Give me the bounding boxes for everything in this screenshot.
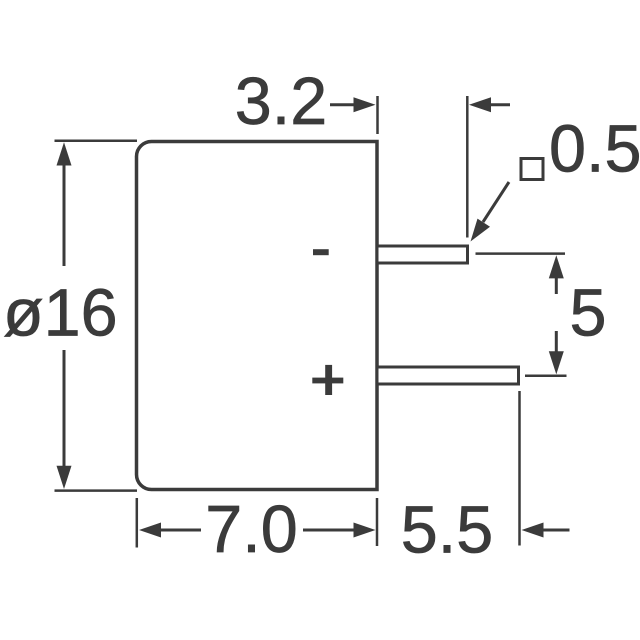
svg-text:5: 5 — [570, 277, 607, 351]
extension line at positive pin center (5 dim, lower) — [525, 375, 567, 378]
negative terminal pin (top lead) — [377, 246, 468, 263]
dimension arrow left (7.0 dim) — [139, 523, 201, 538]
svg-text:0.5: 0.5 — [549, 113, 640, 187]
positive terminal pin (bottom lead) — [377, 367, 519, 384]
extension line above body right edge (3.2 dim) — [376, 96, 379, 134]
plus polarity mark — [312, 365, 343, 395]
minus polarity mark — [313, 249, 329, 255]
extension line at negative pin center (5 dim, upper) — [476, 252, 566, 255]
dimension arrow down (5 dim) — [549, 331, 564, 374]
svg-text:ø16: ø16 — [3, 277, 118, 351]
dimension arrow down (diameter dim) — [57, 350, 72, 489]
svg-text:3.2: 3.2 — [235, 65, 327, 139]
extension line at negative pin end (3.2 dim) — [466, 96, 469, 238]
dimension arrow right (7.0 dim / 5.5 dim shared) — [303, 523, 376, 538]
dimension arrow up (diameter dim) — [57, 142, 72, 266]
extension line below positive pin end (5.5 dim) — [518, 391, 521, 546]
component body (side view, rounded left corners) — [137, 142, 378, 490]
label 7.0 — [205, 493, 297, 567]
dimension arrow left (5.5 dim, outside right) — [522, 523, 570, 538]
label 5 — [570, 277, 607, 351]
square cross-section symbol — [521, 159, 543, 180]
extension line bottom-left (diameter dim, lower) — [55, 489, 138, 492]
label 5.5 — [401, 493, 493, 567]
svg-text:7.0: 7.0 — [205, 493, 297, 567]
extension line top-left (diameter dim, upper) — [55, 140, 138, 143]
label 0.5 — [549, 113, 640, 187]
dimension arrow up (5 dim) — [549, 255, 564, 294]
dimension arrow left (3.2 dim, outside right) — [469, 97, 510, 112]
svg-text:5.5: 5.5 — [401, 493, 493, 567]
leader arrow to pin corner (0.5 dim) — [471, 182, 510, 242]
dimension arrow right (3.2 dim, outside left) — [330, 97, 376, 112]
extension line below body left edge (7.0 dim) — [136, 498, 139, 548]
label 3.2 — [235, 65, 327, 139]
extension line below body right edge (7.0 / 5.5 dims) — [376, 498, 379, 546]
label diameter 16 — [3, 277, 118, 351]
